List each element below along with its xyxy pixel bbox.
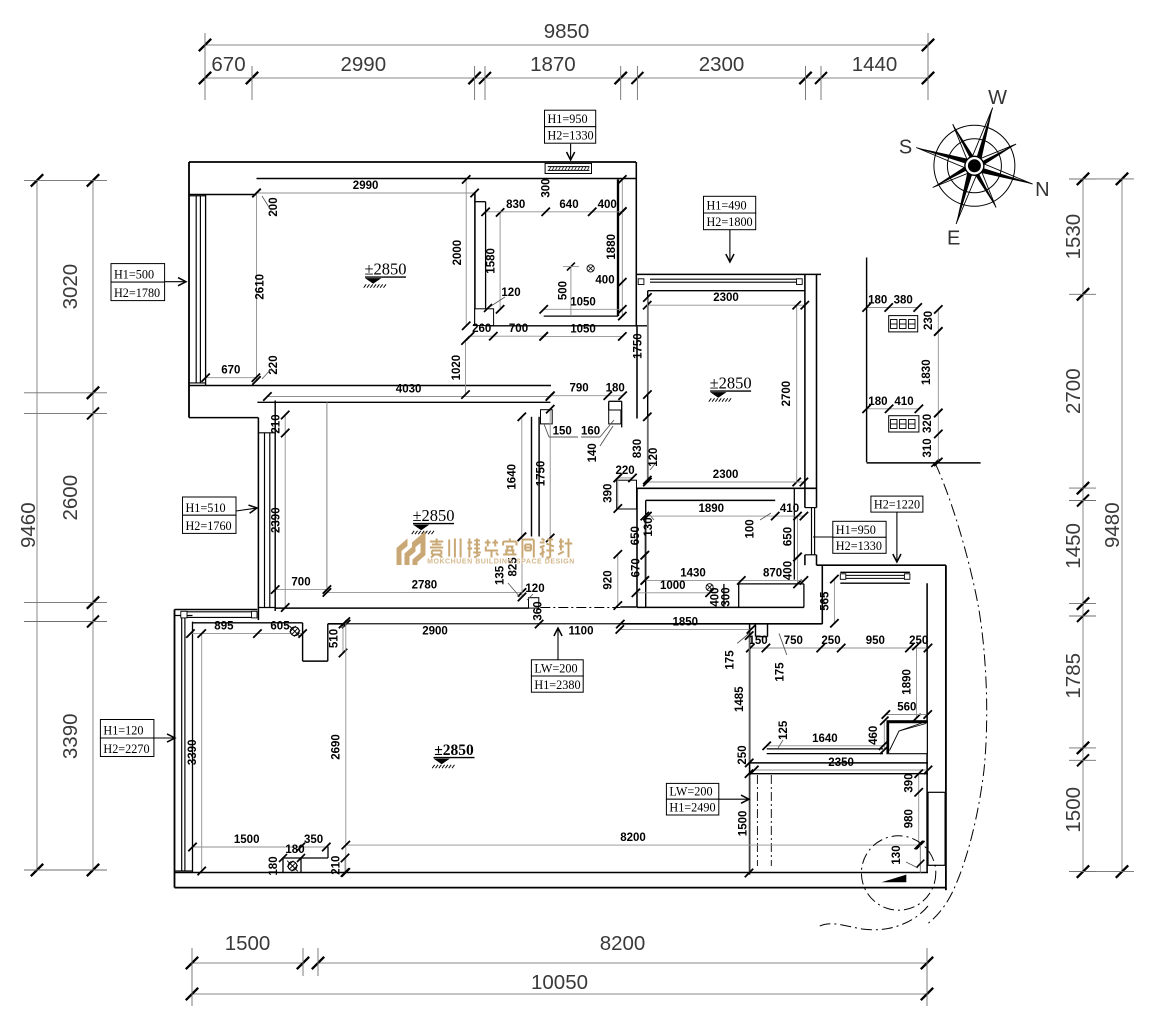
- svg-text:650: 650: [630, 526, 642, 545]
- svg-text:8200: 8200: [620, 832, 646, 844]
- outer wall west of bedroom1: [188, 162, 190, 418]
- left dimension chain total 9460: [36, 180, 38, 870]
- svg-text:2780: 2780: [412, 579, 438, 591]
- svg-text:H1=950: H1=950: [836, 523, 876, 537]
- svg-text:605: 605: [270, 621, 290, 633]
- svg-text:175: 175: [775, 662, 787, 682]
- dim 1750 balcony-north: [646, 298, 648, 395]
- svg-text:410: 410: [780, 503, 799, 515]
- svg-text:1500: 1500: [234, 834, 260, 846]
- svg-text:260: 260: [472, 323, 491, 335]
- entry jog notch: [755, 624, 757, 637]
- svg-text:1640: 1640: [507, 464, 519, 490]
- entry door east: [928, 792, 945, 865]
- south outer wall: [175, 872, 929, 874]
- label LW=200 H1=2380: [531, 660, 583, 676]
- dim 2610: [256, 193, 258, 381]
- svg-text:H2=1780: H2=1780: [114, 286, 160, 300]
- svg-text:3020: 3020: [59, 264, 82, 310]
- svg-text:H2=1330: H2=1330: [548, 129, 594, 143]
- svg-text:LW=200: LW=200: [669, 785, 712, 799]
- dim 2700: [796, 305, 798, 482]
- svg-text:230: 230: [923, 311, 935, 330]
- dim 320/310: [937, 413, 939, 462]
- svg-text:1530: 1530: [1062, 214, 1085, 260]
- svg-text:2700: 2700: [781, 381, 793, 407]
- svg-text:1485: 1485: [734, 686, 746, 712]
- dim 2690: [345, 622, 347, 873]
- svg-text:2000: 2000: [452, 240, 464, 266]
- svg-text:400: 400: [595, 275, 614, 287]
- dim 400 right: [797, 557, 799, 584]
- svg-text:2350: 2350: [828, 757, 854, 769]
- svg-text:H2=1220: H2=1220: [874, 498, 920, 512]
- svg-text:1880: 1880: [606, 234, 618, 260]
- left chain extension lines: [24, 179, 107, 181]
- svg-text:870: 870: [763, 567, 782, 579]
- storage sliding door dash-dot: [756, 775, 758, 866]
- svg-text:210: 210: [271, 414, 283, 433]
- svg-text:410: 410: [894, 396, 913, 408]
- bottom dimension chain 1500 / 8200: [192, 962, 303, 964]
- svg-text:180: 180: [268, 856, 280, 875]
- svg-text:1750: 1750: [536, 461, 548, 487]
- svg-text:9480: 9480: [1101, 502, 1124, 548]
- svg-text:640: 640: [559, 199, 578, 211]
- electric corridor wall: [866, 258, 868, 463]
- bedroom2 west wall: [257, 418, 259, 620]
- balcony-north top wall outer: [636, 273, 821, 275]
- weak electric box: [889, 416, 919, 432]
- label LW=200 H1=2490: [666, 783, 718, 799]
- svg-text:2610: 2610: [255, 274, 267, 300]
- strong electric box: [889, 316, 918, 332]
- svg-text:N: N: [1035, 179, 1049, 201]
- dim 650 right: [797, 516, 799, 557]
- svg-text:130: 130: [643, 517, 655, 536]
- living room west outer wall: [174, 610, 176, 888]
- outer wall top (north): [189, 161, 636, 163]
- dim 4030: [267, 396, 550, 398]
- dim 825: [521, 537, 523, 597]
- detail dash-dot circle: [861, 836, 935, 910]
- svg-text:±2850: ±2850: [434, 742, 474, 759]
- svg-text:220: 220: [268, 355, 280, 374]
- svg-text:H2=1760: H2=1760: [186, 519, 232, 533]
- dim 700/2780: [275, 589, 327, 591]
- bathroom1 west wall: [474, 192, 476, 326]
- dim 670: [644, 555, 646, 580]
- dim 2300 balcony-north top: [647, 304, 805, 306]
- svg-text:390: 390: [603, 484, 615, 503]
- svg-text:400: 400: [783, 561, 795, 580]
- dim 1880 chain: [621, 179, 623, 316]
- label H1=500 H2=1780: [111, 264, 165, 283]
- dim 8200 interior: [346, 844, 921, 846]
- svg-text:300: 300: [541, 178, 553, 197]
- svg-text:150: 150: [749, 635, 768, 647]
- label H1=950 H2=1330 entry: [833, 521, 886, 537]
- top wall inner face: [257, 178, 637, 180]
- svg-text:1100: 1100: [569, 626, 594, 638]
- dim 650 left: [644, 516, 646, 555]
- electric box tiny glyphs: [891, 320, 916, 329]
- svg-text:2300: 2300: [699, 53, 745, 76]
- dim 1890/410 kitchen: [647, 515, 804, 517]
- label H1=510 H2=1760: [183, 497, 237, 515]
- dim 180/380 strong box: [867, 307, 918, 309]
- svg-text:1870: 1870: [530, 53, 576, 76]
- svg-text:H1=490: H1=490: [707, 199, 747, 213]
- svg-text:180: 180: [868, 295, 887, 307]
- svg-text:8200: 8200: [600, 932, 646, 955]
- dim 1640 storage: [767, 745, 883, 747]
- svg-text:1500: 1500: [225, 932, 271, 955]
- svg-text:180: 180: [606, 383, 625, 395]
- hall door pilaster east: [609, 400, 622, 402]
- balcony-north east wall: [804, 274, 806, 507]
- svg-text:100: 100: [745, 519, 757, 538]
- dim 260/700: [470, 335, 544, 337]
- svg-text:320: 320: [922, 414, 934, 433]
- svg-text:500: 500: [558, 281, 570, 300]
- dim 1890 entry: [916, 646, 918, 718]
- dim 1000: [636, 592, 710, 594]
- svg-text:H1=2380: H1=2380: [534, 678, 580, 692]
- svg-text:1050: 1050: [570, 323, 596, 335]
- closet box: [887, 721, 927, 754]
- dim 1500 storage: [748, 774, 750, 873]
- svg-text:250: 250: [821, 635, 840, 647]
- svg-text:895: 895: [214, 621, 234, 633]
- svg-text:350: 350: [304, 834, 323, 846]
- dim 1640: [521, 417, 523, 537]
- bottom chain extension lines: [191, 948, 193, 1006]
- south-west niche and drain box: [283, 857, 328, 859]
- door step black triangle: [882, 875, 907, 883]
- sliding door opening (dash-dot): [540, 607, 620, 609]
- svg-text:1500: 1500: [1062, 787, 1085, 833]
- bottom dimension chain total 10050: [192, 993, 927, 995]
- svg-text:250: 250: [909, 635, 928, 647]
- boundary dash-dot curve: [926, 463, 987, 925]
- svg-text:700: 700: [509, 323, 528, 335]
- storage north wall: [750, 762, 928, 764]
- label H1=950 H2=1330 top: [545, 110, 596, 127]
- balcony-north west wall: [647, 291, 649, 480]
- svg-text:H1=120: H1=120: [103, 724, 143, 738]
- kitchen south wall: [637, 606, 804, 608]
- dim 830/640/400 bathroom1: [486, 211, 623, 213]
- svg-text:830: 830: [506, 199, 525, 211]
- kitchen top-left jog: [617, 480, 637, 509]
- svg-text:2990: 2990: [353, 180, 379, 192]
- svg-text:400: 400: [598, 199, 617, 211]
- dim 2000: [465, 179, 467, 325]
- svg-text:1020: 1020: [451, 355, 463, 381]
- svg-text:2990: 2990: [340, 53, 386, 76]
- dim 130 leader: [919, 845, 921, 873]
- window west bedroom1: [205, 195, 207, 386]
- east outer wall: [926, 583, 928, 873]
- svg-text:1430: 1430: [680, 567, 706, 579]
- top dimension chain total 9850: [205, 44, 928, 46]
- svg-text:1050: 1050: [570, 296, 596, 308]
- right dimension chain total 9480: [1121, 179, 1123, 872]
- dim 2990 bedroom1: [257, 192, 475, 194]
- floor drain living: [288, 862, 297, 871]
- svg-text:1850: 1850: [673, 616, 699, 628]
- dim 1020: [465, 341, 467, 395]
- north window living (top band): [187, 611, 256, 613]
- corridor spine wall: [635, 162, 637, 327]
- svg-text:830: 830: [632, 439, 644, 458]
- dim 180/410 weak box: [867, 408, 919, 410]
- svg-text:±2850: ±2850: [710, 374, 752, 393]
- entry north wall: [817, 564, 946, 566]
- svg-text:2700: 2700: [1062, 368, 1085, 414]
- wall band bedroom1 south: [189, 385, 551, 387]
- right dimension chain segments 1530/2700/1450/1785/1500: [1082, 179, 1084, 872]
- dim 1830: [937, 332, 939, 414]
- svg-text:250: 250: [737, 745, 749, 764]
- svg-text:9850: 9850: [544, 20, 590, 43]
- bathroom1 window top: [545, 163, 591, 173]
- dim 830 corridor: [646, 417, 648, 480]
- svg-text:980: 980: [904, 809, 916, 828]
- svg-text:160: 160: [581, 426, 600, 438]
- svg-text:1000: 1000: [660, 580, 686, 592]
- svg-text:10050: 10050: [531, 971, 588, 994]
- svg-text:S: S: [899, 137, 912, 159]
- dim 230: [937, 309, 939, 331]
- svg-text:120: 120: [648, 448, 660, 467]
- svg-text:670: 670: [631, 558, 643, 577]
- svg-text:3390: 3390: [187, 740, 199, 766]
- svg-text:120: 120: [525, 583, 544, 595]
- svg-text:175: 175: [725, 650, 737, 670]
- svg-text:200: 200: [268, 197, 280, 216]
- dim 510: [342, 624, 344, 653]
- svg-text:700: 700: [291, 577, 310, 589]
- shaft notch: [302, 623, 304, 661]
- svg-text:W: W: [988, 87, 1007, 109]
- svg-text:560: 560: [897, 702, 916, 714]
- dim 2350: [754, 769, 928, 771]
- dim 460: [883, 721, 885, 750]
- kitchen counter: [739, 583, 804, 585]
- svg-text:670: 670: [211, 53, 245, 76]
- svg-text:E: E: [947, 228, 960, 250]
- dim 670 window: [206, 377, 256, 379]
- svg-text:H2=2270: H2=2270: [103, 742, 149, 756]
- svg-text:9460: 9460: [17, 502, 40, 548]
- entry west wall: [821, 565, 823, 624]
- bathroom1 south wall: [544, 315, 618, 317]
- dim 565: [833, 579, 835, 623]
- svg-text:LW=200: LW=200: [534, 662, 577, 676]
- svg-text:670: 670: [221, 365, 240, 377]
- svg-text:MOKCHUEN BUILDING SPACE DESIGN: MOKCHUEN BUILDING SPACE DESIGN: [427, 559, 575, 566]
- svg-text:310: 310: [922, 438, 934, 457]
- label H1=120 H2=2270: [100, 720, 153, 739]
- bedroom2 east wall: [531, 417, 533, 537]
- svg-text:180: 180: [868, 396, 887, 408]
- svg-text:390: 390: [904, 773, 916, 792]
- svg-text:1890: 1890: [699, 503, 725, 515]
- dim 3390 interior: [201, 634, 203, 871]
- svg-text:650: 650: [783, 527, 795, 546]
- dim 220: [618, 477, 633, 479]
- west window living: [192, 622, 194, 873]
- closet divider: [326, 402, 328, 588]
- svg-text:H2=1330: H2=1330: [836, 539, 882, 553]
- wc drain: [587, 265, 594, 272]
- svg-text:H1=2490: H1=2490: [669, 801, 715, 815]
- entry window: [840, 571, 910, 573]
- kitchen door east (glazed): [811, 508, 813, 555]
- svg-text:360: 360: [533, 601, 545, 620]
- closet shelf lines: [767, 748, 883, 750]
- svg-text:1500: 1500: [738, 811, 750, 837]
- svg-text:2600: 2600: [59, 475, 82, 521]
- svg-text:125: 125: [778, 720, 790, 740]
- dim 150/750/250/950/250 entry chain: [750, 647, 928, 649]
- svg-text:±2850: ±2850: [412, 506, 454, 525]
- dim 210/2390 bedroom2: [284, 415, 286, 608]
- svg-text:2300: 2300: [713, 469, 739, 481]
- gas symbol: [290, 627, 299, 636]
- svg-text:H2=1800: H2=1800: [707, 215, 753, 229]
- svg-text:130: 130: [891, 845, 903, 864]
- label H2=1220: [871, 496, 923, 512]
- balcony-north window glazing: [650, 278, 800, 280]
- svg-text:H1=950: H1=950: [548, 112, 588, 126]
- bathroom1 west pilaster: [475, 309, 494, 326]
- kitchen west wall: [636, 488, 638, 607]
- svg-text:1450: 1450: [1062, 523, 1085, 569]
- svg-text:1830: 1830: [921, 359, 933, 385]
- dim 390: [617, 478, 619, 509]
- dim 895/605: [190, 633, 302, 635]
- bathroom1 east wall: [617, 179, 619, 316]
- svg-text:1750: 1750: [633, 333, 645, 359]
- label H1=490 H2=1800: [704, 196, 756, 213]
- svg-text:220: 220: [616, 465, 635, 477]
- south band of middle rooms: [275, 607, 528, 609]
- svg-text:1580: 1580: [486, 248, 498, 274]
- svg-text:750: 750: [784, 635, 803, 647]
- hall door pilaster west: [541, 410, 553, 424]
- svg-text:180: 180: [285, 844, 304, 856]
- dim 2300 balcony-north bottom: [647, 481, 804, 483]
- kitchen drain: [706, 584, 713, 591]
- svg-text:3390: 3390: [59, 713, 82, 759]
- svg-text:135: 135: [494, 565, 506, 585]
- dim 1850: [620, 628, 751, 630]
- dim 1580: [499, 212, 501, 309]
- svg-text:1440: 1440: [852, 53, 898, 76]
- svg-text:4030: 4030: [396, 384, 422, 396]
- dim 2900/1100 living top: [346, 623, 620, 625]
- svg-text:1785: 1785: [1062, 653, 1085, 699]
- storage west wall: [749, 624, 751, 875]
- dim 390/980 storage: [918, 774, 920, 845]
- top dimension chain segments: [205, 77, 928, 79]
- watermark logo: [397, 539, 408, 566]
- svg-text:565: 565: [820, 591, 832, 611]
- svg-text:2300: 2300: [713, 292, 739, 304]
- svg-text:1890: 1890: [902, 669, 914, 695]
- compass north arrow: [934, 125, 1015, 206]
- svg-text:2390: 2390: [271, 507, 283, 533]
- top chain extension lines: [204, 33, 206, 100]
- dim 1750 hall2: [549, 409, 551, 538]
- svg-text:460: 460: [868, 726, 880, 745]
- svg-text:380: 380: [894, 295, 913, 307]
- svg-text:2900: 2900: [422, 626, 448, 638]
- svg-text:150: 150: [553, 426, 572, 438]
- dim 790/180 hall: [550, 395, 622, 397]
- dim 1500/350: [193, 846, 327, 848]
- svg-text:510: 510: [329, 629, 341, 648]
- dim 560: [886, 714, 928, 716]
- svg-text:H1=500: H1=500: [114, 268, 154, 282]
- right chain extension lines: [1069, 178, 1096, 180]
- svg-text:300: 300: [720, 587, 732, 606]
- svg-text:H1=510: H1=510: [186, 501, 226, 515]
- pier notch near opening: [529, 598, 539, 608]
- dim 1050 x2: [544, 308, 623, 310]
- dim 1485: [748, 636, 750, 763]
- boundary curve tail: [818, 906, 928, 930]
- svg-text:1640: 1640: [812, 733, 838, 745]
- svg-text:140: 140: [587, 443, 599, 462]
- bedroom2 west window: [264, 433, 266, 608]
- svg-text:950: 950: [866, 635, 885, 647]
- svg-text:790: 790: [570, 383, 589, 395]
- svg-text:2690: 2690: [331, 734, 343, 760]
- svg-text:±2850: ±2850: [364, 260, 406, 279]
- svg-text:920: 920: [603, 570, 615, 589]
- left dimension chain segments 3020/2600/3390: [92, 180, 94, 870]
- svg-text:210: 210: [331, 856, 343, 875]
- kitchen top wall: [637, 487, 817, 489]
- dim 920: [617, 554, 619, 605]
- dim 1430/870: [645, 579, 804, 581]
- dim 210: [344, 858, 346, 873]
